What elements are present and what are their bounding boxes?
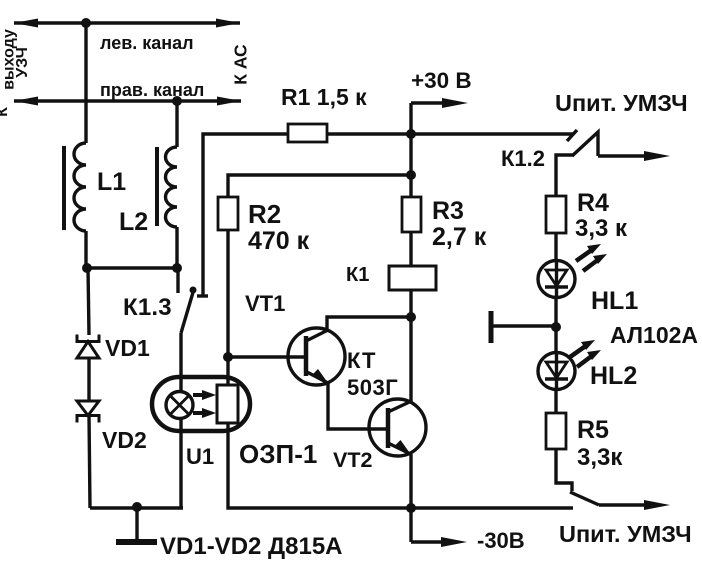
inductor L1 xyxy=(64,143,86,231)
svg-text:R3: R3 xyxy=(432,197,464,225)
svg-text:R2: R2 xyxy=(248,199,281,229)
resistor R4 xyxy=(546,196,566,233)
label K vyhodu UZCh (rotated) xyxy=(0,29,31,117)
wire R4 to HL1 xyxy=(554,233,557,261)
svg-text:VT2: VT2 xyxy=(333,448,372,472)
wire L2 bottom xyxy=(175,227,178,268)
wire VT1 emitter to VT2 base xyxy=(328,383,388,429)
svg-text:R1 1,5 к: R1 1,5 к xyxy=(281,84,367,110)
node L2 / right channel junction xyxy=(172,96,182,106)
svg-text:470 к: 470 к xyxy=(248,227,310,255)
wire relay to collectors xyxy=(409,290,412,402)
node R2 branch junction xyxy=(406,170,416,180)
svg-text:+30 В: +30 В xyxy=(411,68,472,93)
svg-text:L2: L2 xyxy=(119,208,148,236)
zener VD2 xyxy=(77,401,99,423)
switch K1.3 arm xyxy=(181,287,197,334)
wire lamp bottom xyxy=(179,418,182,508)
svg-text:лев. канал: лев. канал xyxy=(100,33,194,53)
svg-text:Uпит. УМЗЧ: Uпит. УМЗЧ xyxy=(555,90,688,116)
svg-text:КТ: КТ xyxy=(347,348,376,373)
relay K1 coil xyxy=(389,266,436,290)
wire L1 bottom xyxy=(84,231,87,268)
wire VD1 top xyxy=(88,268,89,335)
switch K1.2 arm xyxy=(572,132,598,156)
svg-text:L1: L1 xyxy=(97,168,126,196)
svg-text:VT1: VT1 xyxy=(245,291,285,316)
wire L1 top xyxy=(84,23,87,143)
+30V arrow xyxy=(411,98,468,134)
node +30V junction xyxy=(406,129,416,139)
node L1 bottom junction xyxy=(82,263,92,273)
svg-text:U1: U1 xyxy=(186,444,214,469)
wire R2 bottom xyxy=(226,230,229,385)
wire to VT1 collector xyxy=(327,317,411,331)
node minus rail junction xyxy=(406,503,416,513)
svg-text:АЛ102А: АЛ102А xyxy=(610,322,698,348)
svg-text:VD2: VD2 xyxy=(102,427,147,453)
svg-text:ОЗП-1: ОЗП-1 xyxy=(239,439,317,469)
svg-text:VD1-VD2 Д815А: VD1-VD2 Д815А xyxy=(160,533,343,560)
wire L2 top xyxy=(175,101,178,147)
svg-text:прав. канал: прав. канал xyxy=(100,80,204,100)
photoresistor of U1 xyxy=(217,385,238,423)
wire HL1 to HL2 xyxy=(554,297,557,353)
wire K1.1 output arrow xyxy=(599,500,670,510)
wire VD2 bottom xyxy=(89,415,90,508)
wire HL2 to R5 xyxy=(554,389,557,413)
optocoupler U1 body xyxy=(152,377,250,431)
node L1 / left channel junction xyxy=(81,18,91,28)
wire from R1 down to switch xyxy=(203,134,288,296)
node VT1 base junction xyxy=(223,352,233,362)
svg-text:R4: R4 xyxy=(577,189,609,217)
svg-text:HL2: HL2 xyxy=(590,362,637,390)
svg-text:VD1: VD1 xyxy=(105,335,150,361)
light arrows of U1 xyxy=(193,390,216,418)
node ground junction xyxy=(132,502,142,512)
node collector junction xyxy=(406,312,416,322)
ground xyxy=(116,539,157,545)
wire ground stub xyxy=(135,508,138,541)
wire VT1 base xyxy=(228,355,306,358)
switch K1.2 contact tick xyxy=(567,130,577,141)
wire left channel line xyxy=(14,19,240,28)
wire R3 to relay xyxy=(409,232,412,266)
LED HL2 xyxy=(538,353,575,390)
svg-text:Uпит. УМЗЧ: Uпит. УМЗЧ xyxy=(559,521,692,547)
svg-text:2,7 к: 2,7 к xyxy=(432,223,487,251)
resistor R5 xyxy=(546,413,566,449)
light arrows HL1 xyxy=(576,244,607,271)
transistor VT1 xyxy=(288,328,345,385)
switch K1.1 arm xyxy=(570,492,599,505)
zener VD1 xyxy=(77,335,99,359)
svg-text:К1.2: К1.2 xyxy=(501,146,545,171)
common tap bar xyxy=(491,311,556,343)
svg-text:УЗЧ: УЗЧ xyxy=(14,47,31,78)
wire rail to R3 xyxy=(409,134,412,197)
node L2 bottom junction xyxy=(172,263,182,273)
svg-text:R5: R5 xyxy=(577,416,609,444)
wire K1.2 output arrow xyxy=(598,151,670,161)
-30V arrow xyxy=(411,508,467,547)
wire switch fixed contact stub xyxy=(176,268,179,293)
wire ground rail xyxy=(90,506,183,509)
wire bottom rail of speakers xyxy=(87,266,180,269)
wire switch to lamp xyxy=(179,333,182,392)
switch K1.3 contact tick xyxy=(197,294,208,297)
node LED midpoint xyxy=(551,322,561,332)
svg-text:3,3 к: 3,3 к xyxy=(575,215,628,242)
LED HL1 xyxy=(538,261,575,298)
svg-text:HL1: HL1 xyxy=(591,287,638,315)
inductor L2 xyxy=(157,147,177,227)
svg-text:К: К xyxy=(0,107,11,117)
svg-text:503Г: 503Г xyxy=(347,375,398,400)
wire R2 top branch xyxy=(228,175,411,197)
resistor R1 xyxy=(288,124,327,142)
wire VT2 emitter down xyxy=(409,454,412,508)
transistor VT2 xyxy=(369,399,426,456)
resistor R2 xyxy=(218,197,238,230)
wire VD1-VD2 xyxy=(87,358,90,401)
svg-text:К1.3: К1.3 xyxy=(123,294,172,321)
wire right channel line xyxy=(14,97,241,106)
svg-text:К1: К1 xyxy=(346,264,369,286)
svg-text:3,3к: 3,3к xyxy=(577,444,623,471)
svg-text:-30В: -30В xyxy=(477,528,525,553)
wire K1.2 pivot xyxy=(556,155,574,196)
wire photoresistor to minus rail xyxy=(228,423,573,508)
wire +30V rail xyxy=(327,132,573,135)
wire R5 to switch xyxy=(556,449,572,491)
resistor R3 xyxy=(402,197,421,232)
svg-text:К АС: К АС xyxy=(231,44,251,85)
light arrows HL2 xyxy=(570,340,601,367)
lamp of U1 xyxy=(166,392,193,419)
